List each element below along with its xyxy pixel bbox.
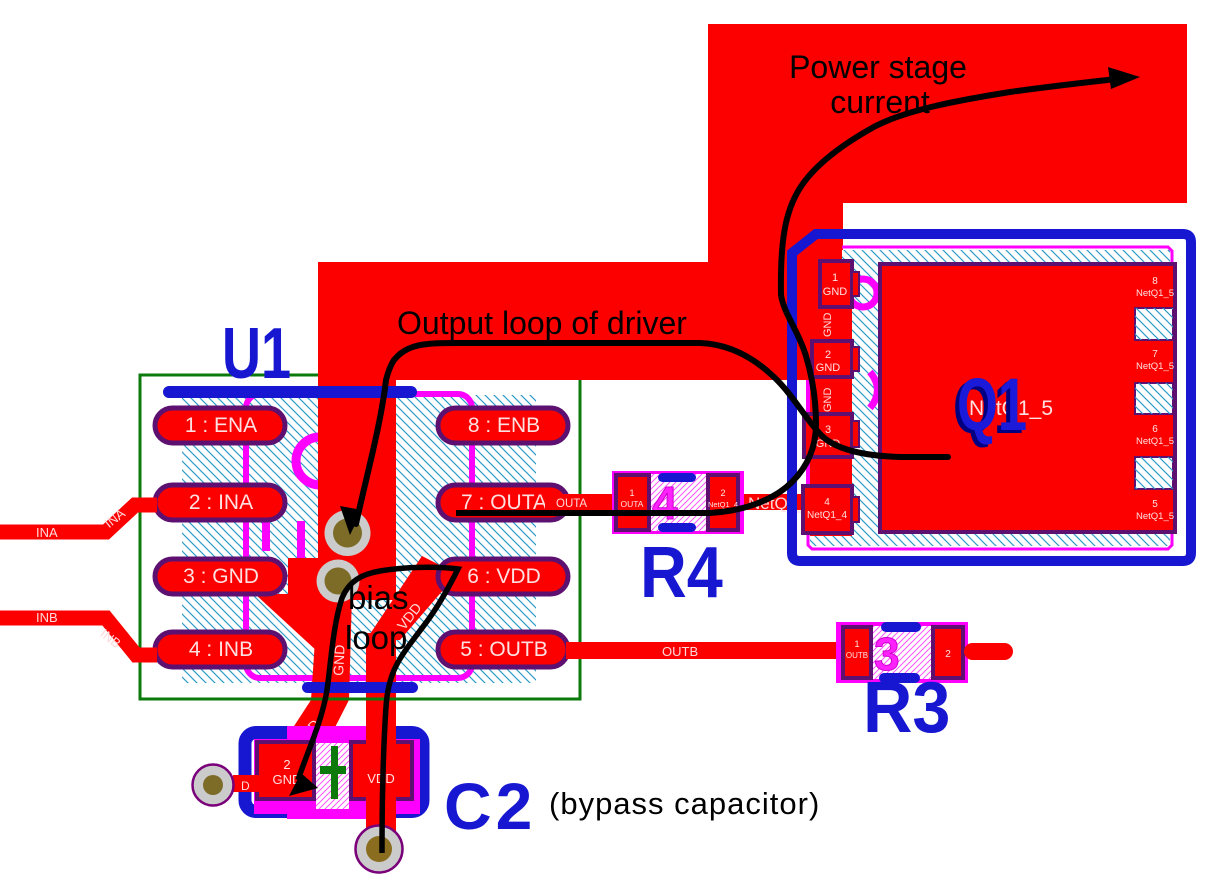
Q1 thermal pad NetQ1_5 — [880, 264, 1175, 532]
U1 silkscreen fragment — [262, 521, 270, 551]
annotation bias loop curve — [298, 567, 458, 853]
svg-text:bias: bias — [348, 579, 409, 616]
wire via to C2 GND pad — [233, 775, 261, 792]
svg-text:3 : GND: 3 : GND — [183, 565, 259, 588]
wire INA trace — [0, 505, 157, 532]
via 1 — [325, 510, 371, 556]
arrowhead bias loop — [289, 773, 318, 796]
Q1 pin 6 label — [1136, 424, 1174, 447]
svg-text:GND: GND — [822, 388, 834, 413]
Q1 right pad gap — [1135, 457, 1173, 489]
op-amp U1 courtyard — [140, 375, 580, 699]
svg-text:GND: GND — [816, 362, 841, 374]
U1 silkscreen pin-1 circle — [296, 437, 344, 485]
C2 pad GND — [257, 742, 314, 799]
wire OUTA trace pad7 to R4 — [545, 494, 617, 511]
Q1 silkscreen arc — [870, 372, 878, 408]
annotation power stage current curve — [456, 78, 1124, 513]
GND copper pour (top block + column + horizontal band) — [318, 24, 1187, 380]
svg-text:U1: U1 — [222, 314, 291, 394]
svg-text:2: 2 — [720, 488, 725, 498]
C2 pad VDD — [351, 742, 412, 799]
via 3 — [193, 765, 234, 806]
U1 component-body hatch region — [182, 395, 536, 683]
wire VDD trace pad6 to C2 — [366, 556, 457, 640]
svg-text:GND: GND — [822, 313, 834, 338]
wire INB trace — [0, 618, 157, 655]
R3 blue bars — [881, 622, 921, 632]
svg-text:6 : VDD: 6 : VDD — [467, 565, 541, 588]
wire pad3 to pour wedge — [288, 558, 318, 594]
wire NetQ1_4 trace R4 to Q1 pin4 — [737, 494, 806, 510]
U1 pad 1 : ENA — [155, 408, 285, 443]
svg-text:1: 1 — [854, 639, 859, 649]
via 4 — [356, 826, 403, 873]
svg-text:8 : ENB: 8 : ENB — [468, 414, 540, 437]
Q1 silkscreen left edge fragments over pour — [806, 380, 810, 414]
svg-text:OUTA: OUTA — [621, 499, 644, 509]
svg-text:loop: loop — [345, 619, 407, 656]
R3 pad 1 — [843, 627, 871, 678]
Q1 pin 1 GND — [820, 261, 859, 307]
svg-text:1: 1 — [832, 272, 838, 284]
svg-text:R4: R4 — [640, 532, 723, 613]
wire VDD trace over C2 — [366, 703, 396, 848]
svg-text:current: current — [830, 84, 930, 120]
svg-text:2: 2 — [945, 649, 951, 660]
Q1 silkscreen magenta outline — [808, 247, 1172, 549]
Q1 copper pour inside — [794, 236, 852, 536]
svg-text:OUTA: OUTA — [556, 498, 587, 510]
GND vertical copper band through U1 — [318, 378, 396, 600]
U1 pad 7 : OUTA — [438, 485, 568, 520]
annotation output loop curve — [356, 343, 948, 524]
svg-text:(bypass capacitor): (bypass capacitor) — [549, 786, 820, 821]
svg-text:NetQ1_5: NetQ1_5 — [1136, 288, 1174, 299]
resistor R4 body — [612, 471, 744, 534]
svg-text:4 : INB: 4 : INB — [189, 638, 253, 661]
svg-text:OUTB: OUTB — [846, 651, 868, 660]
U1 pad 5 : OUTB — [438, 632, 568, 667]
U1 silkscreen top bar (bottom layer line) — [163, 386, 417, 398]
svg-text:4: 4 — [652, 477, 678, 529]
Q1 pin 3 GND — [804, 414, 859, 457]
Q1 pin 5 label — [1136, 499, 1174, 522]
U1 pad 4 : INB — [155, 632, 285, 667]
R4 pad 2 — [708, 475, 738, 530]
arrowhead output loop — [340, 506, 362, 535]
svg-text:OUTB: OUTB — [662, 644, 698, 659]
U1 pad 6 : VDD — [438, 559, 568, 594]
svg-text:5: 5 — [1152, 499, 1158, 510]
arrowhead power — [1108, 67, 1140, 89]
U1 silkscreen outline — [246, 394, 472, 678]
wire VDD trace C2 to via — [366, 800, 396, 842]
svg-text:5 : OUTB: 5 : OUTB — [460, 638, 548, 661]
svg-text:7: 7 — [1152, 349, 1158, 360]
svg-text:Power stage: Power stage — [789, 49, 967, 85]
svg-text:NetQ1_5: NetQ1_5 — [1136, 361, 1174, 372]
svg-text:6: 6 — [1152, 424, 1158, 435]
Q1 pin 4 NetQ1_4 — [803, 486, 859, 533]
U1 courtyard bottom edge over traces — [140, 698, 580, 701]
svg-text:R3: R3 — [863, 666, 950, 747]
svg-text:INA: INA — [36, 525, 58, 540]
wire R3 right trace — [964, 643, 1013, 660]
U1 pad 3 : GND — [155, 559, 285, 594]
U1 silkscreen bottom bar (bottom layer line) — [302, 682, 418, 693]
R4 pad 1 — [616, 475, 649, 530]
svg-text:NetQ1_5: NetQ1_5 — [1136, 436, 1174, 447]
wire OUTB trace pad5 to R3 — [566, 642, 842, 659]
Q1 pin 2 GND — [812, 341, 859, 377]
svg-text:GND: GND — [823, 286, 848, 298]
capacitor C2 outline — [245, 733, 423, 812]
svg-text:NetQ1_5: NetQ1_5 — [1136, 511, 1174, 522]
svg-text:2: 2 — [825, 349, 831, 361]
U1 pad 8 : ENB — [438, 408, 568, 443]
Q1 right pad gap — [1135, 383, 1173, 414]
R4 blue bars — [658, 473, 696, 482]
svg-text:1 : ENA: 1 : ENA — [185, 414, 257, 437]
svg-text:INB: INB — [36, 610, 58, 625]
svg-text:C2: C2 — [444, 769, 536, 843]
transistor Q1 hatch region — [810, 250, 1170, 546]
svg-text:NetQ1_4: NetQ1_4 — [807, 510, 847, 521]
svg-text:2: 2 — [283, 757, 290, 772]
U1 pad 2 : INA — [155, 485, 285, 520]
svg-text:Q1: Q1 — [957, 363, 1027, 446]
Q1 outline blue — [792, 234, 1191, 561]
Q1 pin 8 label — [1136, 276, 1174, 299]
resistor R3 body — [836, 622, 968, 683]
svg-text:D: D — [241, 779, 250, 793]
R3 pad 2 — [933, 627, 963, 678]
Q1 right pad gap — [1135, 308, 1173, 340]
wire GND trace to C2 — [283, 595, 352, 743]
svg-text:Output loop of driver: Output loop of driver — [397, 305, 687, 341]
svg-text:1: 1 — [629, 488, 634, 498]
svg-text:2 : INA: 2 : INA — [189, 491, 253, 514]
U1 silkscreen fragment — [297, 521, 305, 563]
svg-text:8: 8 — [1152, 276, 1158, 287]
C2 body magenta — [254, 739, 420, 814]
svg-text:4: 4 — [824, 497, 830, 508]
svg-text:3: 3 — [825, 424, 831, 436]
C2 green cross — [331, 746, 338, 799]
Q1 pin 7 label — [1136, 349, 1174, 372]
Q1 silkscreen pin1 circle — [849, 279, 877, 307]
via 2 — [317, 560, 360, 603]
